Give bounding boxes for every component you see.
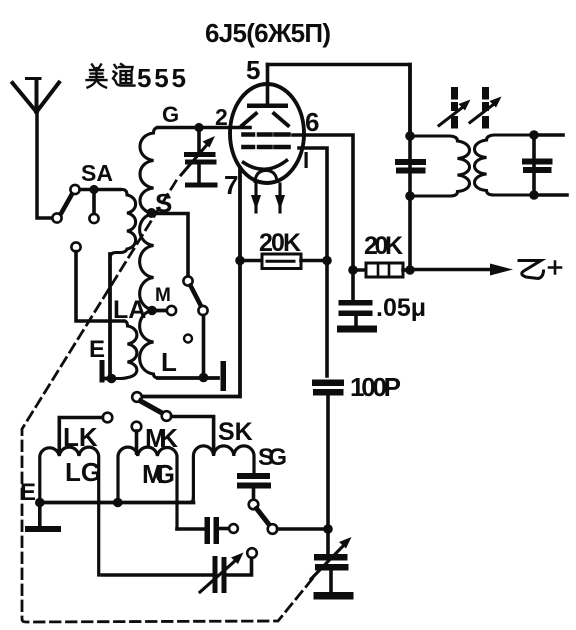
svg-text:M: M: [155, 285, 171, 306]
heater lead right: [278, 184, 281, 212]
coil LA: [113, 296, 146, 324]
wire pin5 anode to IF transformer: [268, 65, 411, 133]
svg-text:5: 5: [246, 55, 260, 85]
band switch (S): [183, 276, 207, 377]
capacitor C 100P: [350, 372, 401, 402]
svg-text:SA: SA: [81, 160, 113, 186]
svg-text:555: 555: [137, 63, 186, 93]
SA contact circle lower: [52, 213, 61, 222]
coil MG with tap MK: [145, 423, 178, 453]
junction dot coil bottom: [199, 373, 209, 383]
grid dashes row 1: [244, 132, 289, 137]
svg-text:SK: SK: [218, 418, 253, 446]
svg-text:6J5(6Ж5П): 6J5(6Ж5П): [205, 18, 331, 48]
label 美通555: [137, 63, 186, 93]
svg-text:MG: MG: [142, 459, 175, 489]
variable capacitor C-reg (bottom right): [311, 529, 354, 600]
SA pole wire: [80, 188, 120, 192]
heater dome: [255, 171, 277, 182]
wire B+ arrow: [410, 264, 513, 276]
IF transformer T1: [395, 65, 567, 267]
secondary coil: [475, 135, 535, 195]
capacitor secondary: [522, 159, 553, 165]
chassis bar right of L: [221, 361, 227, 391]
trimmer core 2: [470, 87, 502, 129]
wire main coil bottom bus: [158, 376, 218, 380]
junction dot node 2: [194, 123, 203, 132]
svg-text:20K: 20K: [364, 232, 403, 260]
antenna ANT: [13, 79, 60, 219]
resistor R2 20K: [364, 232, 403, 260]
dashed gang link and chassis border: [22, 181, 313, 622]
wire pin1: [299, 148, 327, 376]
grid dashes row 2: [244, 145, 289, 150]
junction dot MG: [113, 498, 123, 508]
primary vertical bus: [408, 65, 412, 267]
wire antenna coil to ground: [108, 254, 112, 379]
control grid chevron: [242, 114, 288, 126]
pin 1 label: [305, 152, 308, 168]
capacitor C-pad (series): [177, 517, 238, 544]
svg-text:100P: 100P: [350, 372, 401, 402]
tube U1 (6J5): [246, 55, 260, 85]
svg-text:SG: SG: [258, 444, 287, 471]
SA unused contact stub: [92, 193, 96, 213]
junction dot node X: [323, 524, 333, 534]
svg-text:L: L: [161, 347, 177, 377]
char 通: [113, 64, 135, 86]
junction dot ant-coil/LA/ground: [107, 374, 117, 384]
wire pin7 cathode run: [142, 168, 240, 397]
switch SW-sg: [249, 500, 328, 534]
svg-text:6: 6: [305, 107, 319, 137]
char 美: [87, 65, 107, 88]
cathode arc: [244, 161, 287, 170]
svg-text:E: E: [89, 336, 105, 363]
switch SW-osc (cathode to SK tap): [132, 392, 213, 453]
tap S dot: [147, 208, 157, 218]
coil LG with tap LK: [63, 422, 98, 452]
SA junction dot: [89, 185, 98, 194]
coil G/S/M/L (main tuning coil): [162, 102, 179, 127]
switch SA: [81, 160, 113, 186]
title 6J5(6Ж5П): [205, 18, 331, 48]
trimmer core 1: [439, 87, 471, 129]
wire switch-contact to LA top: [71, 242, 124, 321]
resistor R1 20K: [259, 229, 301, 257]
svg-text:G: G: [162, 102, 179, 127]
svg-text:7: 7: [224, 170, 238, 200]
wire S tap to band switch: [152, 214, 189, 277]
wire M tap to contact: [152, 309, 167, 313]
junction dot E: [35, 498, 45, 508]
secondary vertical bus: [532, 135, 536, 195]
tube envelope: [230, 84, 304, 183]
primary coil: [410, 136, 470, 196]
node 2 grid wire: [158, 126, 250, 130]
svg-text:LG: LG: [65, 457, 101, 487]
label 乙+: [519, 261, 561, 279]
heater lead left: [254, 184, 257, 212]
SA lever: [61, 194, 73, 215]
antenna coil (primary): [110, 190, 136, 259]
capacitor C .05u: [376, 294, 426, 322]
svg-text:2: 2: [215, 104, 228, 130]
capacitor SG: [258, 444, 287, 471]
ground bus bottom: [40, 501, 194, 505]
ground E (left): [89, 336, 105, 363]
coil SK with tap: [218, 418, 253, 446]
wire pin6 screen: [293, 135, 353, 266]
ground E (bottom): [20, 479, 36, 506]
secondary output stubs: [534, 135, 567, 195]
SA contact circle upper: [70, 185, 79, 194]
variable capacitor C-tune (grid): [181, 131, 218, 188]
variable capacitor C-band (bottom centre): [102, 548, 257, 593]
anode plate: [247, 104, 288, 109]
ground bar: [337, 326, 377, 333]
contact o: [184, 335, 192, 343]
svg-text:.05μ: .05μ: [376, 294, 426, 322]
capacitor primary: [395, 159, 426, 165]
tap M dot: [147, 306, 157, 316]
